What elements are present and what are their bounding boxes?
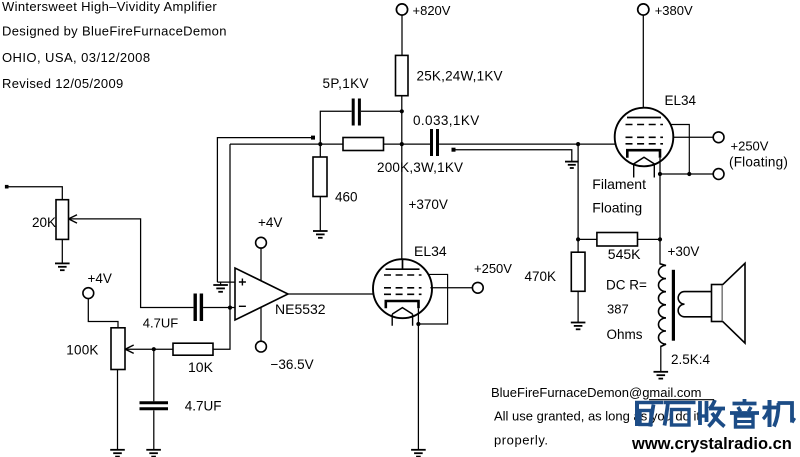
endpoint square shield right	[452, 148, 456, 152]
wire +820V to 25K	[401, 15, 403, 55]
svg-text:20K: 20K	[32, 215, 56, 230]
wire 5P right lead	[361, 110, 402, 112]
wire shield stub to ground	[456, 150, 572, 162]
wire 100K bottom to ground	[117, 370, 119, 450]
transformer core	[672, 270, 675, 341]
wire input to 20K pot top	[9, 187, 63, 200]
svg-text:460: 460	[335, 190, 358, 205]
svg-text:0.033,1KV: 0.033,1KV	[413, 113, 480, 128]
node V2 cathode junction	[658, 172, 662, 176]
svg-text:www.crystalradio.cn: www.crystalradio.cn	[631, 435, 792, 453]
wiper arrow 20K	[69, 215, 78, 223]
resistor 545K	[597, 233, 638, 247]
node V1 cathode junction	[416, 322, 420, 326]
svg-text:+4V: +4V	[258, 215, 282, 230]
svg-text:470K: 470K	[525, 269, 557, 284]
speaker driver	[712, 285, 723, 322]
tube V1 grid row 1	[384, 274, 422, 276]
svg-text:+820V: +820V	[413, 3, 451, 18]
svg-text:2.5K:4: 2.5K:4	[671, 352, 711, 367]
resistor 470K	[571, 252, 585, 291]
svg-text:BlueFireFurnaceDemon@gmail.com: BlueFireFurnaceDemon@gmail.com	[491, 385, 701, 400]
resistor 25K,24W,1KV	[396, 55, 409, 95]
tube EL34 V1 envelope	[373, 259, 432, 318]
wire 20K bottom to ground	[61, 239, 63, 263]
node 200K left junction	[318, 142, 322, 146]
transformer primary winding	[658, 264, 666, 347]
ground under 20K	[55, 263, 70, 270]
ground under 460	[313, 231, 328, 238]
ground under 4.7UF	[146, 450, 161, 457]
wire op-amp bottom to -36.5V	[260, 307, 262, 341]
ground under V1 cathode	[411, 450, 426, 457]
terminal +4V op-amp circle	[256, 237, 267, 248]
wire +4V to op-amp top	[260, 248, 262, 281]
wire +4V to 100K pot top	[88, 299, 118, 328]
speaker cone	[723, 263, 746, 343]
watermark character shi	[664, 403, 696, 426]
node floating junction	[687, 172, 691, 176]
wire 5P left lead down to 200K node	[320, 111, 351, 144]
wire 460 bottom to ground	[319, 197, 321, 231]
email underline	[649, 399, 714, 401]
tube V1 filament pins	[392, 314, 412, 326]
svg-text:+30V: +30V	[668, 244, 700, 259]
wire op-amp output to EL34 grid	[288, 293, 374, 295]
watermark character shou	[700, 400, 725, 427]
svg-text:properly.: properly.	[494, 433, 549, 448]
wire 470K bottom to ground	[577, 291, 579, 322]
watermark character kuang	[635, 402, 664, 427]
node inverting input	[228, 306, 232, 310]
wire non-inverting input	[217, 281, 235, 283]
ground under transformer	[654, 372, 669, 379]
tube V2 filament pins	[634, 164, 655, 178]
svg-text:387: 387	[607, 302, 629, 317]
terminal +820V circle	[396, 4, 407, 15]
node 5P junction	[400, 109, 404, 113]
svg-text:EL34: EL34	[665, 93, 697, 108]
svg-text:Revised 12/05/2009: Revised 12/05/2009	[2, 76, 124, 91]
svg-text:Floating: Floating	[592, 199, 642, 215]
wire primary bottom to ground	[660, 346, 662, 372]
endpoint square near 200K node	[311, 136, 315, 140]
wire shield stub from + input up to square	[217, 138, 311, 283]
wire +380V to tube V2 anode	[642, 15, 644, 117]
svg-text:4.7UF: 4.7UF	[185, 399, 222, 414]
capacitor 0.033,1KV	[432, 129, 438, 156]
resistor 10K	[173, 343, 213, 355]
wire 25K bottom down to EL34 anode	[401, 96, 403, 260]
wire V1 cathode to ground	[417, 324, 419, 450]
svg-text:+4V: +4V	[88, 271, 112, 286]
svg-text:5P,1KV: 5P,1KV	[323, 76, 369, 91]
terminal -36.5V circle	[256, 341, 267, 352]
resistor 200K,3W,1KV	[343, 138, 384, 151]
ground shield right	[565, 162, 579, 168]
wire 10K right to feedback riser	[213, 144, 230, 349]
svg-text:Designed by BlueFireFurnaceDem: Designed by BlueFireFurnaceDemon	[2, 23, 227, 38]
svg-text:545K: 545K	[608, 246, 641, 262]
svg-text:OHIO, USA, 03/12/2008: OHIO, USA, 03/12/2008	[2, 50, 151, 65]
svg-text:+250V: +250V	[474, 261, 512, 276]
potentiometer 20K body	[56, 200, 69, 240]
wire V1 grid2 to +250V terminal	[430, 287, 472, 289]
tube V1 anode	[386, 259, 420, 269]
wire cap 4.7UF bottom to ground	[153, 410, 155, 449]
wire V2 cathode leg to node	[659, 158, 661, 174]
watermark character ji	[763, 400, 795, 427]
svg-text:All use granted, as long as yo: All use granted, as long as you do it	[494, 409, 700, 424]
capacitor 5P,1KV	[353, 99, 359, 126]
wire 545K right lead	[638, 238, 661, 240]
wire 0.033 right lead to EL34 grid	[439, 143, 616, 145]
wire V2 cathode to floating terminal	[660, 173, 713, 175]
wire V2 screen loop to floating node	[670, 125, 689, 175]
terminal +250V V2 circle	[713, 132, 724, 143]
resistor 460	[313, 157, 327, 197]
node +30V junction	[658, 237, 662, 241]
tube V1 filament tent	[392, 308, 412, 315]
tube V1 cathode bracket	[386, 301, 419, 308]
svg-text:200K,3W,1KV: 200K,3W,1KV	[377, 160, 463, 175]
tube V2 grid row 1	[626, 124, 664, 126]
wire feedback riser to 200K node	[230, 143, 320, 145]
terminal +4V left circle	[83, 288, 94, 299]
wire +30V node to transformer primary	[659, 239, 661, 264]
svg-text:NE5532: NE5532	[275, 301, 326, 317]
transformer secondary winding	[678, 292, 711, 317]
tube V2 anode	[627, 117, 661, 119]
terminal +250V V1 circle	[472, 282, 483, 293]
wire coupling cap to inverting input	[203, 307, 235, 309]
ground at non-inverting input	[213, 282, 228, 292]
terminal +380V circle	[638, 4, 649, 15]
svg-text:+380V: +380V	[655, 3, 693, 18]
node anode-coupling junction	[400, 142, 404, 146]
tube V1 grid row 2	[384, 287, 422, 289]
terminal floating circle	[713, 169, 724, 180]
capacitor 4.7UF shunt	[140, 403, 169, 409]
svg-text:+250V: +250V	[731, 138, 769, 153]
node 545K left junction	[576, 237, 580, 241]
svg-text:DC R=: DC R=	[606, 278, 647, 293]
wire 200K left lead	[320, 143, 343, 145]
wire V2 cathode down to +30V node	[659, 174, 661, 239]
op-amp NE5532 body	[235, 268, 288, 320]
svg-text:100K: 100K	[66, 343, 98, 358]
svg-text:(Floating): (Floating)	[729, 155, 788, 170]
wire cap 4.7UF top lead	[153, 349, 155, 401]
svg-text:4.7UF: 4.7UF	[143, 315, 178, 330]
svg-text:25K,24W,1KV: 25K,24W,1KV	[417, 69, 503, 84]
tube V2 cathode bracket	[627, 150, 660, 158]
svg-text:−36.5V: −36.5V	[271, 357, 314, 372]
wiper arrow 100K	[125, 345, 134, 353]
wire V2 grid2 to +250V terminal	[673, 136, 713, 138]
svg-text:Filament: Filament	[592, 176, 646, 192]
node tube2 grid junction	[576, 142, 580, 146]
wire 545K left lead	[578, 238, 597, 240]
svg-text:10K: 10K	[188, 359, 214, 375]
input terminal square	[5, 185, 9, 189]
potentiometer 100K body	[111, 328, 125, 370]
wire 20K wiper to coupling cap	[69, 219, 194, 308]
svg-text:+370V: +370V	[409, 197, 448, 212]
tube EL34 V2 envelope	[615, 108, 674, 167]
ground under 470K	[571, 323, 586, 330]
wire 460 top lead	[319, 144, 321, 157]
wire V1 cathode leg to node	[417, 308, 419, 324]
wire 200K right lead	[384, 143, 402, 145]
tube V1 grid row 3	[384, 293, 422, 295]
ground under 100K	[110, 450, 125, 457]
tube V2 grid row 3	[626, 143, 664, 145]
op-amp minus sign	[239, 305, 246, 307]
node wiper junction	[152, 347, 156, 351]
svg-text:EL34: EL34	[414, 243, 447, 259]
wire 470K top lead	[577, 239, 579, 252]
tube V2 grid row 2	[626, 136, 664, 138]
op-amp plus sign	[239, 279, 246, 286]
svg-text:Ohms: Ohms	[607, 327, 643, 342]
wire V1 screen feedback loop	[418, 274, 447, 324]
tube V2 filament tent	[634, 157, 655, 164]
svg-text:Wintersweet High–Vividity Ampl: Wintersweet High–Vividity Amplifier	[2, 0, 217, 14]
wire grid node down to 545K node	[577, 144, 579, 239]
wire 100K wiper to 10K	[125, 348, 173, 350]
wire 0.033 left lead	[402, 143, 430, 145]
capacitor 4.7UF coupling	[195, 294, 201, 322]
watermark character yin	[730, 399, 759, 427]
